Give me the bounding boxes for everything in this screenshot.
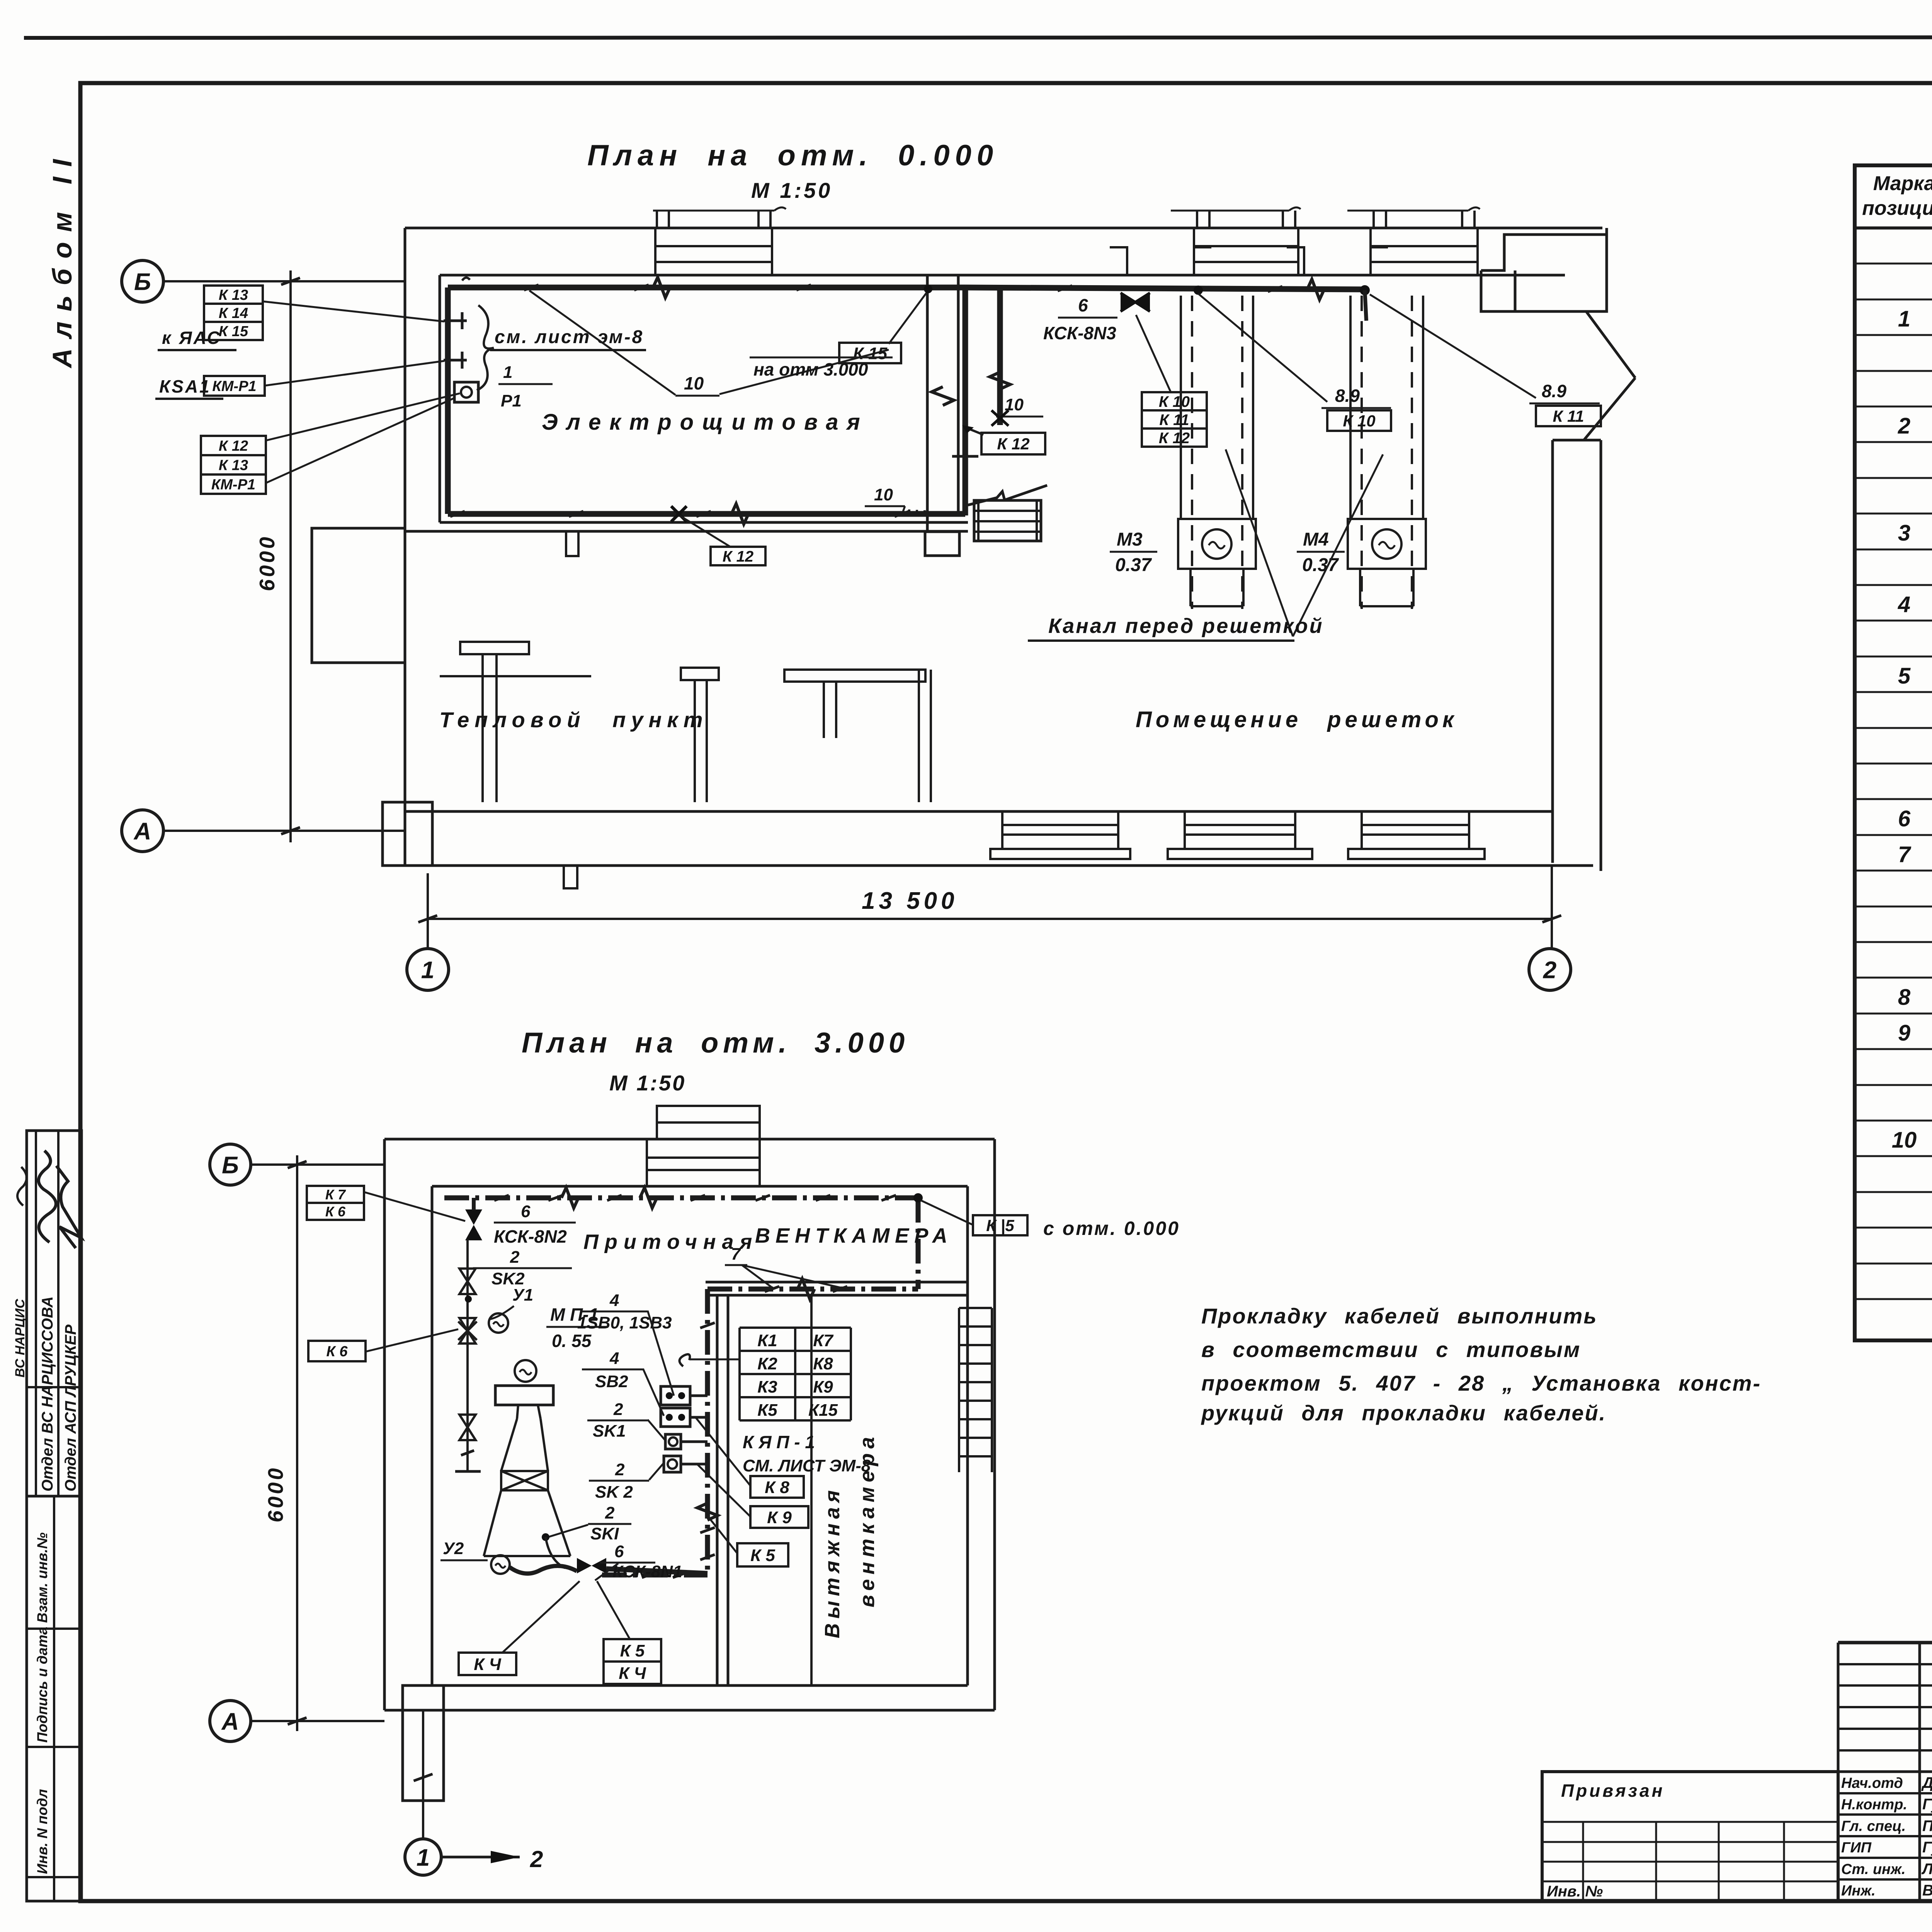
svg-text:1: 1 xyxy=(421,957,434,983)
svg-text:К 15: К 15 xyxy=(219,323,248,340)
svg-text:Воронко: Воронко xyxy=(1922,1882,1932,1899)
svg-text:SB2: SB2 xyxy=(595,1372,628,1391)
svg-text:10: 10 xyxy=(1892,1128,1917,1153)
svg-text:ВС НАРЦИС: ВС НАРЦИС xyxy=(13,1299,27,1378)
svg-text:SKI: SKI xyxy=(590,1524,619,1543)
svg-text:К2: К2 xyxy=(757,1354,777,1373)
svg-text:Б: Б xyxy=(222,1152,239,1179)
svg-text:2: 2 xyxy=(1543,957,1556,983)
svg-text:К |5: К |5 xyxy=(986,1216,1014,1235)
svg-text:6000: 6000 xyxy=(264,1466,287,1522)
svg-text:Инв. N подл: Инв. N подл xyxy=(34,1789,50,1874)
svg-text:КМ-Р1: КМ-Р1 xyxy=(212,378,256,395)
svg-text:План на отм. 3.000: План на отм. 3.000 xyxy=(522,1027,909,1059)
svg-text:см. лист эм-8: см. лист эм-8 xyxy=(495,327,644,347)
svg-text:К 6: К 6 xyxy=(326,1344,348,1360)
svg-text:План на отм. 0.000: План на отм. 0.000 xyxy=(587,139,998,172)
svg-text:13 500: 13 500 xyxy=(862,888,958,914)
svg-text:К 6: К 6 xyxy=(325,1204,346,1219)
svg-text:У1: У1 xyxy=(512,1286,533,1304)
svg-text:Р1: Р1 xyxy=(501,391,522,410)
svg-text:Польцман: Польцман xyxy=(1922,1817,1932,1834)
svg-text:М 1:50: М 1:50 xyxy=(751,178,832,202)
svg-text:рукций для прокладки ка: рукций для прокладки кабелей. xyxy=(1201,1401,1606,1425)
svg-text:К Я П - 1: К Я П - 1 xyxy=(743,1432,815,1452)
svg-text:К 14: К 14 xyxy=(219,305,248,321)
svg-text:К 9: К 9 xyxy=(767,1508,792,1527)
svg-text:А: А xyxy=(133,818,151,845)
svg-text:К 12: К 12 xyxy=(1159,430,1190,447)
svg-text:3: 3 xyxy=(1898,520,1910,546)
svg-text:Привязан: Привязан xyxy=(1561,1781,1665,1801)
svg-text:2: 2 xyxy=(605,1503,615,1522)
svg-text:К5: К5 xyxy=(757,1401,777,1420)
svg-text:У2: У2 xyxy=(443,1539,464,1558)
svg-text:К 11: К 11 xyxy=(1159,412,1189,429)
svg-text:Данилов: Данилов xyxy=(1921,1774,1932,1791)
svg-text:2: 2 xyxy=(615,1460,625,1479)
svg-text:1: 1 xyxy=(503,363,512,382)
svg-text:2: 2 xyxy=(510,1248,520,1267)
svg-text:К 12: К 12 xyxy=(997,435,1029,453)
svg-text:К 11: К 11 xyxy=(1553,407,1584,425)
svg-text:Нач.отд: Нач.отд xyxy=(1841,1775,1903,1791)
svg-text:6: 6 xyxy=(1078,295,1088,315)
svg-text:К 13: К 13 xyxy=(219,287,248,303)
svg-text:Тепловой пункт: Тепловой пункт xyxy=(439,707,708,732)
svg-text:М 1:50: М 1:50 xyxy=(609,1071,686,1095)
svg-text:К 12: К 12 xyxy=(219,438,248,454)
svg-text:Ст. инж.: Ст. инж. xyxy=(1841,1861,1906,1878)
svg-text:Приточная: Приточная xyxy=(583,1230,758,1253)
svg-text:М3: М3 xyxy=(1117,529,1143,550)
svg-text:Электрощитовая: Электрощитовая xyxy=(542,410,869,435)
svg-text:М4: М4 xyxy=(1303,529,1329,550)
svg-text:7: 7 xyxy=(1898,842,1912,867)
svg-text:Отдел АСП ЛРУЦКЕР: Отдел АСП ЛРУЦКЕР xyxy=(62,1325,79,1492)
svg-text:6: 6 xyxy=(614,1542,624,1561)
svg-text:4: 4 xyxy=(609,1349,619,1368)
svg-text:К Ч: К Ч xyxy=(474,1655,501,1674)
svg-text:ГИП: ГИП xyxy=(1841,1840,1872,1856)
svg-text:6: 6 xyxy=(1898,806,1911,831)
svg-text:Б: Б xyxy=(134,269,151,295)
svg-text:Отдел ВС НАРЦИССОВА: Отдел ВС НАРЦИССОВА xyxy=(39,1296,56,1492)
svg-text:проектом 5. 407 - 28 „: проектом 5. 407 - 28 „ Установка конст- xyxy=(1201,1371,1761,1395)
svg-text:2: 2 xyxy=(613,1400,623,1419)
svg-text:8.9: 8.9 xyxy=(1335,386,1360,406)
svg-text:К9: К9 xyxy=(813,1378,833,1396)
svg-text:К 10: К 10 xyxy=(1343,412,1375,430)
svg-text:КСК-8N2: КСК-8N2 xyxy=(494,1226,567,1247)
svg-text:венткамера: венткамера xyxy=(855,1432,879,1607)
svg-text:Взам. инв.№: Взам. инв.№ xyxy=(34,1532,50,1623)
svg-text:4: 4 xyxy=(1898,592,1910,617)
svg-text:КСК-8N1: КСК-8N1 xyxy=(612,1562,682,1581)
svg-text:К8: К8 xyxy=(813,1354,833,1373)
svg-text:6: 6 xyxy=(521,1202,531,1221)
svg-text:6000: 6000 xyxy=(255,535,279,591)
svg-text:Канал перед решеткой: Канал перед решеткой xyxy=(1048,614,1324,638)
svg-text:с отм. 0.000: с отм. 0.000 xyxy=(1043,1218,1180,1239)
svg-text:0. 55: 0. 55 xyxy=(552,1331,592,1351)
svg-text:А: А xyxy=(221,1708,239,1735)
svg-text:КSA1: КSA1 xyxy=(159,376,211,396)
svg-text:Н.контр.: Н.контр. xyxy=(1841,1797,1907,1813)
svg-text:К7: К7 xyxy=(813,1331,834,1350)
svg-text:4: 4 xyxy=(609,1291,619,1310)
svg-text:1SB0, 1SB3: 1SB0, 1SB3 xyxy=(577,1313,672,1332)
svg-text:2: 2 xyxy=(1898,413,1910,439)
svg-text:Гугева: Гугева xyxy=(1922,1796,1932,1813)
svg-text:0.37: 0.37 xyxy=(1302,555,1339,575)
svg-text:К 5: К 5 xyxy=(750,1546,775,1565)
svg-text:в соответствии с типовым: в соответствии с типовым xyxy=(1201,1337,1581,1362)
svg-text:Гл. спец.: Гл. спец. xyxy=(1841,1818,1906,1834)
svg-text:К1: К1 xyxy=(757,1331,777,1350)
svg-text:9: 9 xyxy=(1898,1020,1910,1046)
svg-text:Помещение решеток: Помещение решеток xyxy=(1136,707,1458,732)
svg-text:Альбом II: Альбом II xyxy=(47,149,77,369)
svg-text:10: 10 xyxy=(684,373,704,393)
svg-text:позиция: позиция xyxy=(1862,197,1932,219)
svg-text:SK 2: SK 2 xyxy=(595,1483,633,1502)
svg-text:К 5: К 5 xyxy=(620,1641,645,1660)
svg-text:0.37: 0.37 xyxy=(1115,555,1152,575)
svg-text:на отм 3.000: на отм 3.000 xyxy=(753,359,868,379)
svg-text:СМ. ЛИСТ ЭМ-8: СМ. ЛИСТ ЭМ-8 xyxy=(743,1456,871,1475)
svg-text:К 10: К 10 xyxy=(1159,393,1190,410)
svg-text:Инж.: Инж. xyxy=(1841,1883,1876,1899)
svg-text:Вытяжная: Вытяжная xyxy=(821,1486,844,1638)
svg-text:1: 1 xyxy=(1898,306,1910,332)
svg-text:1: 1 xyxy=(417,1844,430,1871)
svg-text:Подпись и дата: Подпись и дата xyxy=(34,1627,50,1743)
svg-text:К Ч: К Ч xyxy=(619,1664,646,1683)
svg-text:К3: К3 xyxy=(757,1378,777,1396)
svg-text:SK1: SK1 xyxy=(593,1422,626,1440)
svg-text:КМ-Р1: КМ-Р1 xyxy=(211,477,255,493)
svg-text:Литвинова: Литвинова xyxy=(1921,1861,1932,1878)
svg-text:2: 2 xyxy=(530,1846,543,1872)
svg-text:Инв. №: Инв. № xyxy=(1547,1883,1603,1900)
svg-text:5: 5 xyxy=(1898,663,1911,689)
svg-text:КСК-8N3: КСК-8N3 xyxy=(1043,323,1116,343)
svg-text:10: 10 xyxy=(874,485,893,504)
svg-text:8.9: 8.9 xyxy=(1542,381,1566,401)
svg-text:К15: К15 xyxy=(808,1401,838,1420)
svg-text:к ЯАС: к ЯАС xyxy=(162,328,221,348)
svg-text:Марка: Марка xyxy=(1873,172,1932,195)
svg-text:ВЕНТКАМЕРА: ВЕНТКАМЕРА xyxy=(755,1224,953,1247)
svg-text:8: 8 xyxy=(1898,985,1911,1010)
svg-text:К 8: К 8 xyxy=(765,1478,789,1497)
svg-text:К 13: К 13 xyxy=(219,457,248,474)
svg-text:Прокладку кабелей выполнит: Прокладку кабелей выполнить xyxy=(1201,1304,1598,1328)
svg-text:К 12: К 12 xyxy=(723,548,753,565)
svg-text:Гусева: Гусева xyxy=(1922,1839,1932,1856)
svg-text:К 7: К 7 xyxy=(325,1187,346,1202)
